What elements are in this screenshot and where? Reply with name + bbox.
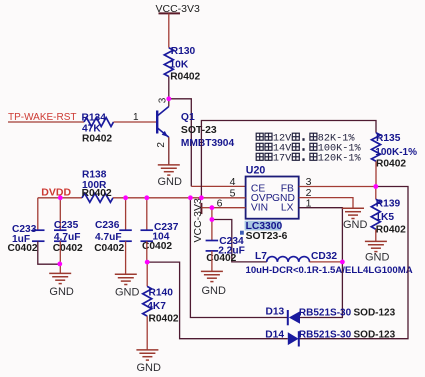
node C237-R140 junction	[145, 260, 150, 265]
label C235	[54, 220, 79, 231]
footprint C0402 of C234	[206, 253, 236, 264]
svg-text:10uH-DCR<0.1R-1.5A/ELL4LG100MA: 10uH-DCR<0.1R-1.5A/ELL4LG100MA	[246, 265, 413, 276]
svg-text:C0402: C0402	[53, 243, 83, 254]
svg-text:R138: R138	[82, 170, 107, 181]
wire L7 to LX node	[310, 261, 343, 263]
wire rail to C237	[146, 198, 148, 230]
pin name VIN	[251, 203, 268, 214]
label R135	[376, 133, 401, 144]
pin number 6	[217, 197, 223, 209]
capacitor C237	[141, 230, 154, 241]
label GND of R140	[137, 362, 162, 374]
ground of U20 pin2	[342, 208, 364, 218]
wire node to R140	[146, 262, 148, 286]
wire C236 to ground	[125, 241, 127, 274]
wire VCC-3V3 to R130	[168, 13, 170, 47]
label R134	[82, 112, 107, 123]
resistor R134	[84, 118, 114, 127]
footprint SOD-123 of D14	[354, 330, 396, 341]
svg-text:CD32: CD32	[311, 251, 337, 262]
pin number 1 of Q1	[133, 112, 139, 123]
wire rail to C236	[125, 198, 127, 230]
svg-text:SOD-123: SOD-123	[354, 308, 396, 319]
ground of C235	[49, 273, 71, 283]
svg-text:1: 1	[133, 112, 139, 123]
label GND of Q1	[158, 176, 183, 188]
label U20	[246, 164, 266, 176]
svg-text:VIN: VIN	[251, 203, 268, 214]
wire Q1 emitter to ground	[168, 137, 170, 165]
pin number 2 of Q1	[156, 142, 167, 148]
footprint C0402 of C237	[142, 241, 172, 252]
ground of C236	[115, 274, 137, 284]
label C233	[12, 224, 37, 235]
power symbol VCC-3V3 at VIN	[201, 203, 212, 214]
net label TP-WAKE-RST	[8, 112, 77, 123]
power symbol VCC-3V3 (top)	[156, 3, 201, 15]
resistor R139	[371, 199, 380, 229]
footprint SOT-23 of Q1	[181, 125, 217, 136]
value 104	[152, 231, 169, 242]
value 4.7uF of C236	[95, 232, 122, 243]
label GND of U20 pin2	[343, 219, 368, 231]
resistor R140	[143, 286, 152, 316]
wire VCC rail to R135 top	[201, 121, 376, 198]
label GND of C234	[202, 285, 227, 297]
svg-text:DVDD: DVDD	[41, 186, 71, 198]
svg-text:R135: R135	[376, 133, 401, 144]
svg-text:100K-1%: 100K-1%	[375, 147, 417, 158]
label GND of C236	[115, 287, 140, 299]
svg-text:4: 4	[230, 176, 236, 188]
footprint R0402 of R134	[82, 133, 112, 144]
svg-text:RB521S-30: RB521S-30	[299, 330, 352, 341]
svg-text:4.7uF: 4.7uF	[54, 232, 81, 243]
resistor R130	[164, 48, 173, 77]
value 10uH inductor spec	[246, 265, 413, 276]
ground of R140	[136, 350, 158, 360]
wire R140 to ground	[146, 316, 148, 350]
diode D13	[288, 310, 300, 325]
footprint C0402 of C236	[94, 243, 124, 254]
label C236	[95, 220, 120, 231]
svg-text:Q1: Q1	[181, 112, 195, 123]
label D14	[265, 330, 284, 341]
wire R134 to Q1 base	[114, 121, 158, 123]
wire Q1 collector stub	[168, 99, 170, 107]
wire C237 to R140 node	[146, 241, 148, 262]
svg-text:R0402: R0402	[149, 313, 179, 324]
svg-text:120K-1%: 120K-1%	[318, 154, 362, 165]
op-amp U20 body	[246, 177, 299, 219]
wire FB pin	[299, 186, 376, 188]
wire VIN pin	[212, 207, 246, 209]
annotation chinese resistor-choice note	[256, 133, 361, 164]
part MMBT3904	[181, 138, 235, 149]
capacitor C233	[32, 230, 45, 241]
diode D14	[288, 331, 299, 346]
svg-text:C0402: C0402	[94, 243, 124, 254]
label C237	[154, 222, 179, 233]
capacitor C234	[206, 241, 219, 251]
node C233-C235 ground junction	[57, 262, 62, 267]
svg-text:U20: U20	[246, 164, 266, 176]
wire collector node to CE pin	[169, 99, 246, 187]
part RB521S-30 of D14	[299, 330, 352, 341]
svg-text:R134: R134	[82, 112, 107, 123]
pin number 1	[306, 197, 312, 209]
net label DVDD	[41, 186, 71, 198]
svg-text:1K5: 1K5	[375, 212, 394, 223]
ground of Q1	[158, 165, 180, 175]
svg-text:SOD-123: SOD-123	[354, 330, 396, 341]
svg-text:2: 2	[156, 142, 167, 148]
svg-text:GND: GND	[49, 286, 74, 298]
svg-text:R0402: R0402	[170, 71, 200, 82]
wire FB to R139	[375, 187, 377, 200]
footprint R0402 of R140	[149, 313, 179, 324]
svg-text:GND: GND	[115, 287, 140, 299]
wire R139 to ground	[375, 229, 377, 241]
wire R130 to collector node	[168, 77, 170, 99]
svg-text:17V: 17V	[273, 154, 292, 165]
inductor L7	[267, 257, 310, 262]
svg-text:R0402: R0402	[376, 225, 406, 236]
wire LX pin to L7 node	[299, 208, 343, 262]
node VIN junction	[210, 205, 215, 210]
wire VIN node to L7	[212, 220, 267, 262]
wire LX node to D13 anode	[300, 262, 342, 318]
resistor R138	[82, 193, 113, 202]
svg-text:4K7: 4K7	[147, 301, 166, 312]
pin name GND	[272, 193, 295, 204]
pin number 5	[230, 187, 236, 199]
value 4K7	[147, 301, 166, 312]
value 100R	[82, 180, 107, 191]
wire R135 to FB node	[375, 161, 377, 186]
wire VIN to C234	[211, 208, 213, 241]
svg-text:GND: GND	[365, 251, 390, 263]
svg-text:L7: L7	[255, 251, 267, 262]
transistor Q1	[157, 107, 169, 138]
wire rail drop to C233	[37, 198, 39, 230]
svg-text:R0402: R0402	[82, 133, 112, 144]
svg-text:R0402: R0402	[376, 159, 406, 170]
part RB521S-30 of D13	[299, 308, 352, 319]
ground of R139	[365, 241, 387, 251]
pin name CE	[251, 184, 265, 195]
svg-text:R130: R130	[171, 46, 196, 57]
node FB junction	[373, 184, 378, 189]
wire VCC-3V3 rail to OVP pin	[113, 197, 246, 199]
value 1uF	[12, 234, 30, 245]
label GND of C235	[49, 286, 74, 298]
wire C234 to ground	[211, 251, 213, 271]
value 47K	[82, 123, 101, 134]
pin number 3	[306, 176, 312, 188]
footprint SOD-123 of D13	[354, 308, 396, 319]
svg-text:C235: C235	[54, 220, 79, 231]
node rail-D13 junction	[188, 195, 193, 200]
pin number 4	[230, 176, 236, 188]
part LC3300 highlighted	[245, 221, 283, 233]
svg-text:GND: GND	[137, 362, 162, 374]
label L7	[255, 251, 267, 262]
node VIN-L7 junction	[210, 217, 215, 222]
pin name LX	[281, 203, 294, 214]
net label VCC-3V3 rotated	[192, 198, 204, 243]
footprint R0402 of R138	[82, 188, 112, 199]
value 4.7uF of C235	[54, 232, 81, 243]
capacitor C235	[54, 230, 67, 241]
label D13	[266, 306, 285, 317]
label R140	[149, 288, 174, 299]
svg-text:4.7uF: 4.7uF	[95, 232, 122, 243]
label R130	[171, 46, 196, 57]
wire GND pin 2	[299, 198, 353, 208]
svg-text:10K: 10K	[170, 59, 189, 70]
footprint R0402 of R130	[170, 71, 200, 82]
wire rail to C235	[59, 198, 61, 230]
svg-text:GND: GND	[202, 285, 227, 297]
svg-text:C0402: C0402	[206, 253, 236, 264]
footprint C0402 of C235	[53, 243, 83, 254]
node rail-C236 junction	[123, 195, 128, 200]
svg-text:SOT-23: SOT-23	[181, 125, 217, 136]
label GND of R139	[365, 251, 390, 263]
pin name FB	[281, 184, 294, 195]
wire C233 to ground node	[38, 241, 60, 264]
value 100K-1%	[375, 147, 417, 158]
svg-text:VCC-3V3: VCC-3V3	[192, 198, 204, 243]
selection mark	[240, 231, 244, 235]
value 1K5	[375, 212, 394, 223]
wire C235 to ground	[59, 241, 61, 273]
svg-text:MMBT3904: MMBT3904	[181, 138, 235, 149]
svg-text:LX: LX	[281, 203, 294, 214]
wire TP-WAKE-RST to R134	[8, 121, 84, 123]
footprint C0402 of C233	[8, 243, 38, 254]
label C234	[219, 236, 244, 247]
node rail-C237 junction	[144, 195, 149, 200]
wire DVDD rail left	[38, 197, 82, 199]
svg-text:R140: R140	[149, 288, 174, 299]
value 2.2uF	[218, 246, 245, 257]
footprint R0402 of R135	[376, 159, 406, 170]
svg-text:VCC-3V3: VCC-3V3	[156, 3, 201, 15]
wire FB node to D14 cathode	[299, 187, 408, 339]
label R139	[376, 199, 401, 210]
svg-text:GND: GND	[343, 219, 368, 231]
capacitor C236	[119, 230, 132, 241]
wire node to D14 anode	[147, 262, 288, 339]
svg-text:R0402: R0402	[82, 188, 112, 199]
pin name OVP	[251, 193, 273, 204]
resistor R135	[372, 133, 381, 162]
wire rail to D13 cathode	[190, 198, 287, 318]
footprint R0402 of R139	[376, 225, 406, 236]
value 10K	[170, 59, 189, 70]
svg-text:GND: GND	[158, 176, 183, 188]
node collector junction	[166, 96, 171, 101]
node LX junction	[340, 260, 345, 265]
footprint SOT23-6 of U20	[246, 231, 288, 242]
node rail-R135wire junction	[199, 195, 204, 200]
pin number 2	[306, 187, 312, 199]
svg-text:C236: C236	[95, 220, 120, 231]
svg-text:R139: R139	[376, 199, 401, 210]
svg-text:C0402: C0402	[8, 243, 38, 254]
label R138	[82, 170, 107, 181]
ground of C234	[201, 271, 223, 281]
label CD32	[311, 251, 337, 262]
svg-text:RB521S-30: RB521S-30	[299, 308, 352, 319]
label Q1	[181, 112, 195, 123]
pin number 3 of Q1	[157, 97, 168, 103]
svg-text:D14: D14	[265, 330, 284, 341]
node rail-C235 junction	[58, 195, 63, 200]
svg-text:SOT23-6: SOT23-6	[246, 231, 288, 242]
svg-text:D13: D13	[266, 306, 285, 317]
